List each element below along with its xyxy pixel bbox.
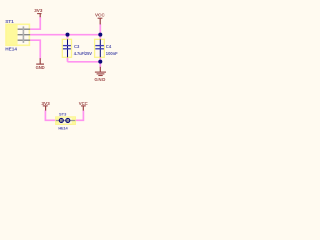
connector ST1 body fill [6, 24, 18, 46]
capacitor C3 frame [62, 39, 71, 57]
wire bottom rail to GND [68, 62, 101, 68]
ST3 pin1 pad circle [59, 118, 63, 122]
capacitor C3 [63, 39, 71, 57]
wire C4 top lead [99, 35, 101, 40]
connector ST3 body [56, 117, 76, 124]
svg-text:GND: GND [94, 77, 106, 82]
junction node C3/rail [66, 33, 70, 37]
svg-text:4.7uF/25V: 4.7uF/25V [74, 51, 92, 56]
svg-text:VCC: VCC [95, 13, 105, 18]
svg-text:VCC: VCC [79, 101, 88, 106]
junction node VCC/C4/rail [98, 33, 102, 37]
ST3 pin2 pad circle [66, 118, 70, 122]
ST3 right end cap [72, 117, 76, 124]
supply 3V3 bottom [41, 101, 50, 111]
ground GND1 [36, 58, 45, 70]
svg-text:3V3: 3V3 [34, 8, 43, 13]
wire pin2 rail to VCC node [30, 34, 100, 36]
pin 1 of ST1 [18, 29, 31, 40]
pin 1 tick [22, 26, 24, 43]
ST3 pin1 tick [60, 118, 62, 123]
wire C3 top lead [67, 35, 69, 40]
pin 3 of ST1 [18, 39, 31, 41]
ST3 pin line [56, 120, 76, 122]
pin 3 tick [22, 37, 24, 43]
wire pin3 to GND [30, 40, 40, 59]
svg-text:HE14: HE14 [5, 46, 17, 51]
svg-text:GND: GND [36, 65, 45, 70]
capacitor C4 [95, 39, 104, 57]
supply VCC bottom [79, 101, 88, 111]
connector ST1 outline [6, 24, 29, 45]
wire VCC riser [99, 24, 101, 35]
supply 3V3 top [34, 8, 43, 17]
wire ST3 pin1 to 3V3 [45, 110, 55, 120]
svg-text:C3: C3 [74, 44, 80, 49]
ST3 pin2 tick [67, 118, 69, 123]
svg-text:ST3: ST3 [59, 112, 67, 117]
wire pin1 to 3V3 [30, 17, 100, 121]
wire C3 bottom lead [67, 57, 69, 61]
wire ST3 pin2 to VCC [75, 110, 83, 120]
svg-text:ST1: ST1 [5, 19, 14, 25]
capacitor C4 frame [95, 39, 105, 57]
junction node bottom rail/GND [98, 60, 102, 64]
ground GND2 [94, 67, 106, 82]
svg-text:100nF: 100nF [106, 51, 118, 56]
svg-text:HE14: HE14 [58, 126, 68, 131]
svg-text:C4: C4 [106, 44, 112, 49]
pin 2 tick [22, 32, 24, 38]
supply VCC top [95, 13, 105, 25]
ST3 left end cap [56, 117, 60, 124]
pin 2 of ST1 [18, 34, 31, 36]
wire C4 bottom lead [99, 57, 101, 61]
